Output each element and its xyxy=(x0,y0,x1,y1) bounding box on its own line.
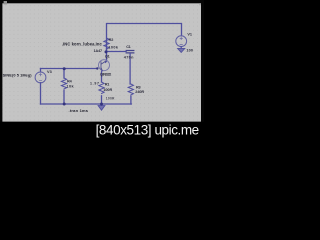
svg-text:.tran 1ms: .tran 1ms xyxy=(69,108,89,113)
wire V3 top xyxy=(40,69,42,73)
capacitor C1 xyxy=(126,51,134,53)
svg-text:100R: 100R xyxy=(103,88,112,92)
ground (on rail) xyxy=(98,104,105,110)
transistor Q1 xyxy=(99,60,110,71)
svg-text:100: 100 xyxy=(186,49,193,53)
junction node R4/rail xyxy=(63,103,66,106)
svg-text:C1: C1 xyxy=(126,45,131,49)
wire R3 to rail xyxy=(130,96,132,104)
junction node R1/ground/rail xyxy=(100,103,103,106)
svg-text:V3: V3 xyxy=(47,70,52,74)
svg-text:Q1: Q1 xyxy=(105,54,110,58)
svg-text:SINE(0 5 1Meg): SINE(0 5 1Meg) xyxy=(3,72,33,77)
svg-text:Q2N2222: Q2N2222 xyxy=(100,72,111,76)
junction node base at Q1 xyxy=(96,67,98,69)
voltage source V3 xyxy=(35,72,46,83)
svg-text:1.97: 1.97 xyxy=(90,81,99,85)
ground (under V1) xyxy=(178,49,185,53)
voltage source V1 xyxy=(176,36,187,47)
schematic canvas xyxy=(2,3,201,121)
wire top rail collector to V1 xyxy=(107,24,182,52)
svg-text:10k: 10k xyxy=(66,85,74,89)
wire R1 to rail xyxy=(101,96,103,104)
resistor R1 xyxy=(99,82,104,94)
corner notch top-right xyxy=(199,3,201,5)
wire V3 bottom xyxy=(40,83,42,104)
wire node to C1 xyxy=(107,49,127,52)
resistor R2 xyxy=(104,38,109,49)
wire emitter to R1 xyxy=(101,71,103,82)
junction node R4/base wire xyxy=(63,67,66,70)
svg-text:240R: 240R xyxy=(135,90,144,94)
wire V1 to ground xyxy=(180,47,182,49)
wire C1 to R3 xyxy=(129,54,131,84)
ground rail xyxy=(41,103,132,105)
svg-text:470n: 470n xyxy=(124,56,134,60)
resistor R4 xyxy=(61,78,66,89)
svg-text:100k: 100k xyxy=(108,45,118,49)
corner icon top-left xyxy=(4,1,7,4)
watermark bar xyxy=(0,122,204,144)
junction node R2/C1/collector xyxy=(105,50,108,53)
svg-text:R3: R3 xyxy=(136,86,141,90)
wire R4 top xyxy=(63,69,65,79)
svg-text:R2: R2 xyxy=(109,38,114,42)
svg-text:100R: 100R xyxy=(106,97,115,101)
svg-text:1A47: 1A47 xyxy=(94,49,103,53)
wire collector into Q1 xyxy=(106,52,107,62)
svg-text:.INC korn_lubea.inc: .INC korn_lubea.inc xyxy=(62,42,103,47)
wire R4 bottom xyxy=(63,90,65,104)
resistor R3 xyxy=(128,84,133,95)
svg-text:[840x513] upic.me: [840x513] upic.me xyxy=(96,123,200,138)
svg-text:R1: R1 xyxy=(105,83,110,87)
svg-text:V1: V1 xyxy=(187,32,192,36)
window frame background xyxy=(0,0,204,144)
base wire V3 to Q1 xyxy=(41,68,98,70)
